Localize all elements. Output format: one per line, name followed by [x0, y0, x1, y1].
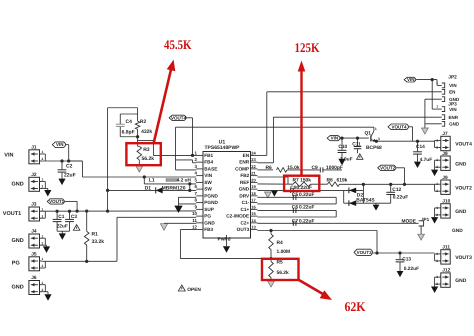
- annotation red arrow to 125K: [300, 71, 302, 176]
- ground of J2 - wire: [42, 181, 45, 183]
- ground symbol below C2: [58, 179, 65, 186]
- pin JP3-3 GND: [442, 121, 445, 126]
- svg-text:PG: PG: [12, 261, 20, 267]
- svg-text:C3: C3: [71, 214, 77, 220]
- wire JP2 GND to ground riser: [425, 98, 442, 100]
- pin 13 OUT3: [251, 229, 258, 231]
- svg-text:VOUT2: VOUT2: [380, 165, 396, 170]
- wire FB1 to IC pin 1: [153, 154, 196, 156]
- svg-text:TPS65148PWP: TPS65148PWP: [204, 145, 240, 151]
- svg-text:SUP: SUP: [204, 207, 214, 212]
- svg-text:J4: J4: [31, 229, 37, 235]
- svg-text:619k: 619k: [337, 177, 348, 183]
- svg-text:GND: GND: [455, 278, 467, 284]
- capacitor C9: [319, 167, 321, 172]
- ground symbol at pin 11 GND: [160, 224, 167, 231]
- ground symbol at J2: [44, 190, 51, 197]
- ground symbol at J12: [431, 287, 438, 294]
- node junction VOUT2 drop: [403, 183, 406, 186]
- op-amp U1 TPS65148PWP body: [203, 152, 251, 239]
- wire PGND to ground: [178, 197, 180, 205]
- wire R4 to R5: [270, 250, 272, 262]
- resistor R7: [293, 182, 311, 187]
- svg-text:VIN: VIN: [407, 77, 415, 82]
- svg-text:ENR: ENR: [449, 115, 459, 120]
- svg-text:PwPd: PwPd: [218, 236, 231, 242]
- svg-text:C4: C4: [126, 119, 133, 125]
- svg-text:FB4: FB4: [204, 160, 213, 165]
- svg-text:1.00M: 1.00M: [277, 249, 291, 255]
- wire ENR from pin 23 to JP3: [257, 162, 273, 164]
- capacitor C1: [56, 210, 59, 213]
- pin JP2-1 VIN: [442, 83, 445, 88]
- wire C5 bracket right side: [335, 197, 337, 204]
- wire COMP from pin 22: [257, 169, 273, 171]
- pin 17 C1-: [251, 202, 258, 204]
- wire C9 to ground point: [323, 169, 342, 171]
- annotation red box around R7: [284, 176, 319, 191]
- capacitor C12: [390, 184, 392, 192]
- pin 5 SW: [196, 181, 203, 183]
- wire J3 pin tie: [42, 217, 45, 219]
- svg-text:C5: C5: [292, 192, 299, 198]
- node junction R1 bottom on PG row: [85, 260, 88, 263]
- pin JP2-2 EN: [442, 89, 445, 94]
- svg-text:20: 20: [251, 177, 256, 182]
- pin 24 EN: [251, 154, 258, 156]
- svg-text:VIN: VIN: [56, 142, 64, 147]
- pin JP2-3 GND: [442, 97, 445, 102]
- inductor L1: [144, 183, 196, 185]
- wire R7 to R8: [311, 183, 328, 185]
- wire C6 bracket right side: [335, 210, 337, 217]
- wire J12 pin tie: [435, 276, 439, 278]
- svg-text:ENR: ENR: [239, 160, 250, 165]
- svg-text:4.7uF: 4.7uF: [420, 157, 433, 163]
- ground symbol PGND: [174, 206, 182, 213]
- pin 10 PG: [196, 215, 203, 217]
- svg-text:J6: J6: [31, 275, 37, 281]
- node junction C14 top: [416, 140, 419, 143]
- svg-text:J11: J11: [442, 245, 450, 251]
- wire VOUT1 vertical riser to divider: [107, 108, 109, 211]
- wire FB3 from pin 12: [180, 229, 196, 231]
- wire BASE riser from long line: [175, 127, 177, 170]
- wire J9 pin tie: [435, 183, 439, 185]
- svg-text:Q1: Q1: [365, 130, 372, 136]
- wire J1 pin tie: [42, 153, 45, 155]
- svg-text:EN: EN: [243, 153, 250, 158]
- net label VOUT2: [378, 165, 396, 170]
- pin JP3-1 VIN: [442, 107, 445, 112]
- svg-text:VOUT4: VOUT4: [171, 115, 187, 120]
- wire OUT3 drop to VOUT3 row: [376, 231, 378, 254]
- ground symbol below PwPd: [223, 246, 230, 253]
- svg-text:0.22uF: 0.22uF: [404, 266, 419, 272]
- diode D2 bottom half: [344, 202, 391, 204]
- svg-text:1: 1: [436, 104, 438, 108]
- svg-text:J2: J2: [31, 172, 37, 178]
- svg-text:21: 21: [251, 171, 256, 176]
- wire C1- pin 17 row: [257, 203, 336, 205]
- connector J12: [441, 273, 450, 287]
- svg-text:GND: GND: [455, 161, 467, 167]
- ground symbol at J8: [431, 170, 438, 177]
- ground symbol below R3: [136, 166, 143, 173]
- wire J11 pin tie: [435, 253, 439, 255]
- net label VOUT3: [354, 249, 373, 255]
- pin 4 VIN: [196, 175, 203, 177]
- pin 14 C2+: [251, 222, 258, 224]
- transistor Q1 BCP68: [370, 135, 372, 141]
- svg-text:OUT3: OUT3: [237, 227, 250, 232]
- svg-text:14: 14: [251, 218, 256, 223]
- svg-text:19: 19: [251, 184, 256, 189]
- wire JP3 GND to ground riser: [425, 123, 442, 125]
- wire GND pin 19 row: [257, 189, 343, 191]
- diode D1 symbol: [156, 187, 163, 193]
- ground symbol below R5: [268, 281, 275, 287]
- svg-text:22: 22: [251, 164, 256, 169]
- pin 1 FB1: [196, 154, 203, 156]
- capacitor C11: [357, 138, 359, 146]
- svg-text:13: 13: [251, 225, 256, 230]
- node junction at C2 top: [60, 159, 63, 162]
- svg-text:BCP68: BCP68: [366, 145, 382, 151]
- svg-text:1: 1: [42, 257, 44, 261]
- pin JP3-2 ENR: [442, 115, 445, 120]
- svg-text:PG: PG: [204, 214, 211, 219]
- wire J10 pin tie: [435, 207, 439, 209]
- connector J11: [441, 250, 450, 264]
- capacitor C2: [61, 161, 63, 169]
- wire VOUT1 row J3 to IC pin 9 SUP: [42, 210, 196, 212]
- svg-text:GND: GND: [449, 97, 460, 102]
- pin 21 FB2: [251, 175, 258, 177]
- wire VOUT2 row R8 to J9: [340, 183, 435, 185]
- wire C2+ pin 14 row / capacitor C7: [257, 222, 334, 224]
- svg-text:FB1: FB1: [204, 153, 213, 158]
- svg-text:23: 23: [251, 157, 256, 162]
- ground of J6 - wire: [42, 284, 45, 286]
- svg-text:J10: J10: [442, 199, 450, 205]
- capacitor C10: [341, 138, 343, 150]
- svg-text:22uF: 22uF: [64, 173, 76, 179]
- wire R3 bottom to ground: [138, 160, 140, 166]
- wire FB1 tap from divider: [138, 140, 154, 142]
- ground symbol at J6: [44, 294, 51, 301]
- wire VOUT1 label drop: [65, 200, 77, 202]
- pin JP1 MODE: [419, 221, 424, 226]
- svg-text:16: 16: [251, 204, 256, 209]
- wire divider stem upper: [137, 108, 139, 121]
- node junction riser at VOUT1 row: [106, 210, 109, 213]
- node junction D1 cathode on VOUT1 riser: [106, 189, 109, 192]
- svg-text:C7: C7: [292, 219, 299, 225]
- svg-text:MODE: MODE: [402, 219, 417, 225]
- wire J8 pin tie: [435, 159, 439, 161]
- wire C1+ pin 16 row / capacitor C6: [257, 209, 336, 211]
- resistor R1: [85, 209, 88, 212]
- svg-text:DRV: DRV: [239, 193, 250, 198]
- svg-text:6.8pF: 6.8pF: [122, 130, 135, 136]
- wire VOUT3 row to J11: [373, 252, 435, 254]
- svg-text:R8: R8: [327, 177, 334, 183]
- connector J7: [441, 136, 450, 150]
- node junction FB3 node: [269, 257, 272, 260]
- ground symbol gray at pin 19: [265, 192, 272, 198]
- svg-text:VOUT4: VOUT4: [392, 124, 408, 129]
- svg-text:GND: GND: [449, 122, 460, 127]
- svg-text:R7 150k: R7 150k: [293, 177, 312, 183]
- node junction Q1 emitter on VOUT4 row: [375, 140, 378, 143]
- svg-text:GND: GND: [12, 181, 24, 187]
- svg-text:C6: C6: [292, 204, 299, 210]
- annotation red box around R5: [262, 259, 299, 280]
- wire VOUT4 label to FB1 riser: [187, 117, 193, 119]
- wire VIN label to JP2 pin1: [416, 79, 437, 81]
- wire VOUT4 label to C14 node: [409, 126, 413, 128]
- node junction D2 on VOUT2 row: [362, 183, 365, 186]
- svg-text:R2: R2: [140, 119, 147, 125]
- connector J4: [29, 234, 40, 248]
- wire EN from pin 24 to JP2: [257, 154, 266, 156]
- wire SW tie vertical: [189, 184, 191, 191]
- svg-text:22uF: 22uF: [57, 223, 68, 229]
- connector J3: [29, 207, 40, 221]
- warning triangle near C3: [73, 225, 80, 231]
- pin 22 COMP: [251, 168, 258, 170]
- svg-text:SW: SW: [204, 187, 212, 192]
- svg-text:J9: J9: [442, 175, 448, 181]
- svg-text:GND: GND: [239, 187, 250, 192]
- node junction C11 top: [356, 137, 359, 140]
- capacitor C14: [417, 141, 419, 151]
- svg-text:11: 11: [192, 218, 197, 223]
- svg-text:VOUT2: VOUT2: [455, 185, 472, 191]
- svg-text:0.22uF: 0.22uF: [299, 204, 315, 210]
- svg-text:FB2: FB2: [240, 173, 249, 178]
- pin 19 GND: [251, 188, 258, 190]
- wire VIN riser to JP3 pin1: [431, 80, 433, 110]
- svg-text:JP1: JP1: [421, 217, 430, 222]
- svg-text:GND: GND: [452, 228, 463, 234]
- svg-text:J1: J1: [31, 145, 37, 151]
- svg-text:L1: L1: [149, 177, 155, 183]
- wire VIN row to IC pin 4: [82, 176, 196, 178]
- connector J5: [29, 257, 40, 271]
- net label VOUT4 top right: [388, 124, 409, 130]
- node junction C10 top: [340, 137, 343, 140]
- svg-text:GND: GND: [455, 209, 467, 215]
- svg-text:VOUT1: VOUT1: [49, 199, 65, 204]
- ground symbol black at pin 19: [271, 191, 278, 197]
- svg-text:C2+: C2+: [240, 220, 249, 225]
- node junction VIN riser top: [431, 78, 434, 81]
- ground of J4 - wire: [42, 237, 45, 239]
- note OPEN warning triangle: [178, 285, 185, 291]
- wire FB2 from pin 21: [257, 176, 288, 178]
- wire PG riser to IC pin 10: [116, 217, 118, 261]
- svg-text:C11: C11: [352, 141, 361, 147]
- svg-text:EN: EN: [449, 90, 455, 95]
- svg-text:OPEN: OPEN: [187, 287, 201, 293]
- net label VIN at Q1: [327, 136, 340, 141]
- annotation red arrow to 62K: [299, 280, 325, 295]
- svg-text:JP2: JP2: [448, 74, 457, 80]
- svg-text:C13: C13: [402, 256, 411, 262]
- svg-text:C1+: C1+: [240, 207, 249, 212]
- resistor R2: [135, 121, 140, 129]
- wire VIN label to Q1 base row: [341, 137, 369, 139]
- resistor R5: [269, 262, 274, 278]
- svg-text:33.2k: 33.2k: [92, 239, 105, 245]
- resistor R4: [270, 231, 272, 235]
- wire J7 pin tie: [435, 140, 439, 142]
- svg-text:0.22uF: 0.22uF: [299, 192, 315, 198]
- wire PGND pin 7: [179, 196, 197, 198]
- svg-text:3: 3: [378, 137, 380, 141]
- wire PGND pin 8: [179, 203, 197, 205]
- svg-text:VOUT3: VOUT3: [455, 255, 472, 261]
- svg-text:SW: SW: [204, 180, 212, 185]
- svg-text:J12: J12: [442, 268, 450, 274]
- svg-text:REF: REF: [240, 180, 250, 185]
- pin 20 REF: [251, 181, 258, 183]
- svg-text:VIN: VIN: [449, 83, 457, 88]
- svg-text:C2-/MODE: C2-/MODE: [226, 214, 249, 219]
- wire R5 to ground: [270, 278, 272, 282]
- node junction SW tie top: [188, 182, 191, 185]
- svg-text:VOUT3: VOUT3: [357, 250, 373, 255]
- pin 12 FB3: [196, 229, 203, 231]
- node junction VIN row: [67, 159, 70, 162]
- svg-text:0.22uF: 0.22uF: [299, 219, 315, 225]
- connector J10: [441, 204, 450, 218]
- svg-text:D2: D2: [357, 192, 364, 198]
- svg-text:C12: C12: [392, 187, 401, 193]
- svg-text:R1: R1: [92, 232, 99, 238]
- capacitor C13: [399, 253, 401, 259]
- pin 3 BASE: [196, 168, 203, 170]
- ground symbol below C14: [414, 162, 421, 168]
- wire PG row J5 to riser: [42, 260, 117, 262]
- wire OUT3 from pin 13: [257, 230, 377, 232]
- svg-text:12: 12: [192, 225, 197, 230]
- svg-text:J7: J7: [442, 131, 448, 137]
- svg-text:C9: C9: [312, 165, 319, 171]
- wire J5 pin tie: [42, 267, 45, 269]
- pin 23 ENR: [251, 161, 258, 163]
- ground symbol below JP1: [418, 234, 425, 240]
- svg-text:BASE: BASE: [204, 166, 217, 171]
- ground symbol below C10: [338, 159, 345, 166]
- node junction VOUT1 row at label drop: [76, 210, 79, 213]
- wire VIN row to bus corner: [69, 160, 83, 162]
- wire FB4 jog to IC pin 2: [176, 159, 193, 161]
- svg-text:56.2k: 56.2k: [142, 156, 155, 162]
- wire divider top rail: [108, 107, 138, 109]
- node junction VIN row to L1: [143, 175, 146, 178]
- node junction R2 bottom / R3 top: [136, 135, 139, 138]
- resistor R6: [277, 168, 287, 173]
- ground symbol below C13: [397, 271, 404, 277]
- svg-text:18: 18: [251, 191, 256, 196]
- connector J1: [29, 150, 40, 164]
- wire GND pin 11: [164, 222, 196, 224]
- ground symbol below JP3: [422, 128, 429, 134]
- svg-text:1: 1: [375, 127, 377, 131]
- ground symbol at J10: [431, 217, 438, 224]
- svg-text:GND: GND: [12, 284, 24, 290]
- pin 9 SUP: [196, 208, 203, 210]
- wire REF from pin 20: [257, 183, 293, 185]
- pin 11 GND: [196, 222, 203, 224]
- node junction OUT3 at R4: [269, 229, 272, 232]
- svg-text:PGND: PGND: [204, 200, 218, 205]
- wire C8 row to D2 left node: [343, 190, 345, 203]
- wire VIN row drop to L1 row: [143, 177, 145, 184]
- ground symbol below C1 C3: [59, 233, 66, 240]
- wire R6 to C9: [287, 169, 320, 171]
- pin 6 SW: [196, 188, 203, 190]
- svg-text:VOUT1: VOUT1: [3, 211, 21, 217]
- pin 15 C2-/MODE: [251, 215, 258, 217]
- svg-text:J5: J5: [31, 252, 37, 258]
- svg-text:C10: C10: [338, 144, 347, 150]
- warning triangle below C11: [357, 154, 363, 160]
- svg-text:VOUT4: VOUT4: [455, 142, 472, 148]
- diode D2 top half: [344, 189, 364, 191]
- svg-text:0.22uF: 0.22uF: [393, 195, 409, 201]
- svg-text:VIN: VIN: [204, 173, 212, 178]
- node junction FB1 row: [191, 154, 194, 157]
- svg-text:24: 24: [251, 151, 256, 156]
- connector J9: [441, 180, 450, 194]
- svg-text:R6: R6: [266, 165, 273, 171]
- wire long VOUT4 net line: [176, 126, 374, 128]
- capacitor C8 inline: [290, 188, 292, 193]
- svg-text:BAT54S: BAT54S: [356, 198, 375, 204]
- node junction VOUT3 drop: [375, 251, 378, 254]
- svg-text:COMP: COMP: [235, 166, 249, 171]
- connector J8: [441, 156, 450, 170]
- wire stem R2 to R3: [137, 129, 139, 146]
- net label VOUT4 near divider: [169, 115, 186, 120]
- svg-text:R4: R4: [277, 240, 284, 246]
- wire DRV pin 18 row / capacitor C5: [257, 196, 336, 198]
- svg-text:45.5K: 45.5K: [164, 37, 192, 52]
- pin 2 FB4: [196, 161, 203, 163]
- svg-text:C2: C2: [66, 164, 73, 170]
- net label VIN at J1: [52, 142, 65, 148]
- annotation red arrow to 45.5K: [154, 67, 172, 143]
- capacitor C3: [68, 210, 71, 213]
- ground symbol at J4: [43, 246, 50, 253]
- wire MODE net from C7 bracket: [334, 222, 419, 224]
- svg-text:10: 10: [192, 211, 197, 216]
- svg-text:56.2k: 56.2k: [277, 270, 290, 276]
- svg-text:VIN: VIN: [4, 153, 13, 159]
- svg-text:FB3: FB3: [204, 227, 213, 232]
- net label VIN top right: [404, 77, 416, 82]
- wire J1 to VIN net, node row y161: [42, 160, 82, 162]
- svg-text:D1: D1: [145, 185, 152, 191]
- svg-text:17: 17: [251, 198, 256, 203]
- wire VOUT2 label drop: [396, 167, 404, 169]
- node junction C13 top: [398, 251, 401, 254]
- pin 8 PGND: [196, 202, 203, 204]
